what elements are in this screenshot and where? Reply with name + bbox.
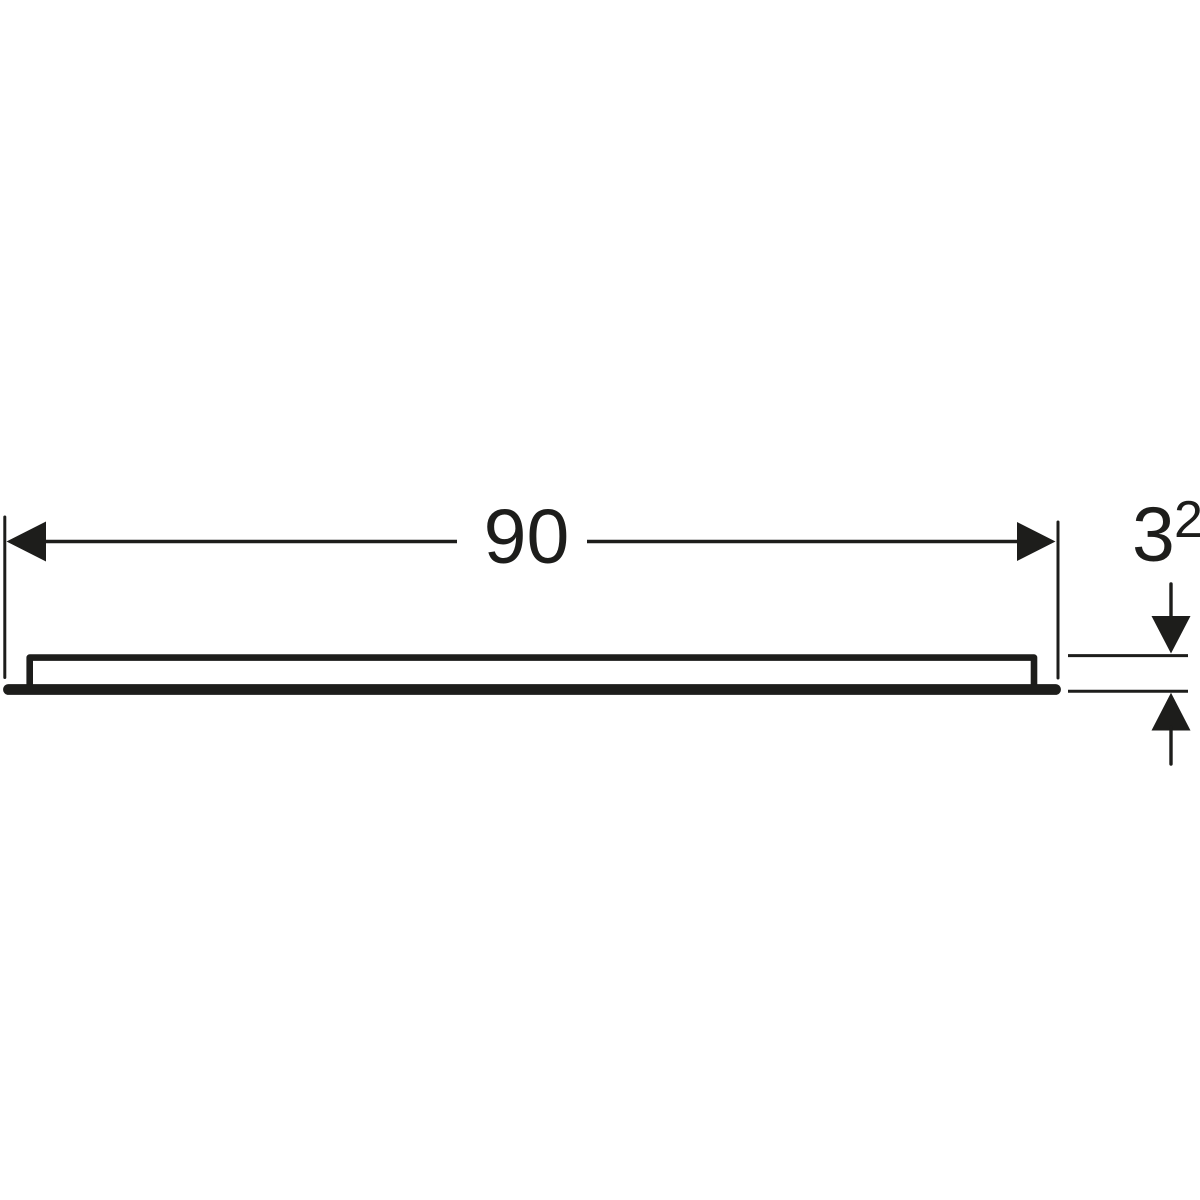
dimension label 3 with footnote 2 (1132, 491, 1200, 578)
svg-text:2: 2 (1174, 491, 1200, 549)
arrowhead left (7, 522, 47, 562)
thickness arrow up (1152, 693, 1191, 764)
thickness reference line bottom (1068, 690, 1188, 693)
svg-text:3: 3 (1132, 492, 1175, 578)
arrowhead right (1017, 522, 1056, 561)
thickness arrow down (1152, 584, 1191, 654)
extension line right (1057, 522, 1060, 678)
thickness reference line top (1068, 654, 1188, 657)
mirror body profile (outlined) (30, 658, 1034, 687)
dimension line 90 right segment (587, 540, 1020, 543)
dimension label 90 (484, 494, 570, 580)
extension line left (3, 517, 6, 678)
dimension line 90 left segment (42, 540, 457, 543)
svg-text:90: 90 (484, 494, 570, 580)
mirror glass bar (thick) (9, 684, 1056, 695)
